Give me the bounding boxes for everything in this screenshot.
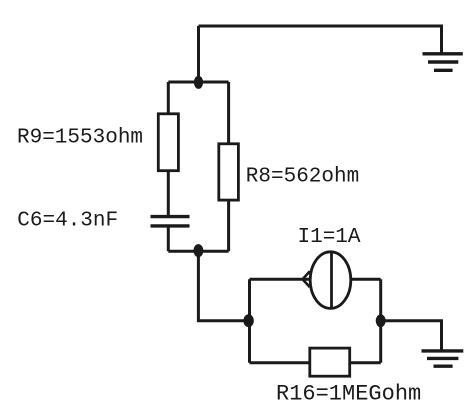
svg-text:I1=1A: I1=1A xyxy=(298,226,361,249)
svg-text:R16=1MEGohm: R16=1MEGohm xyxy=(276,382,421,407)
svg-text:C6=4.3nF: C6=4.3nF xyxy=(17,210,118,233)
svg-text:R8=562ohm: R8=562ohm xyxy=(246,166,359,189)
svg-text:R9=1553ohm: R9=1553ohm xyxy=(17,127,143,150)
